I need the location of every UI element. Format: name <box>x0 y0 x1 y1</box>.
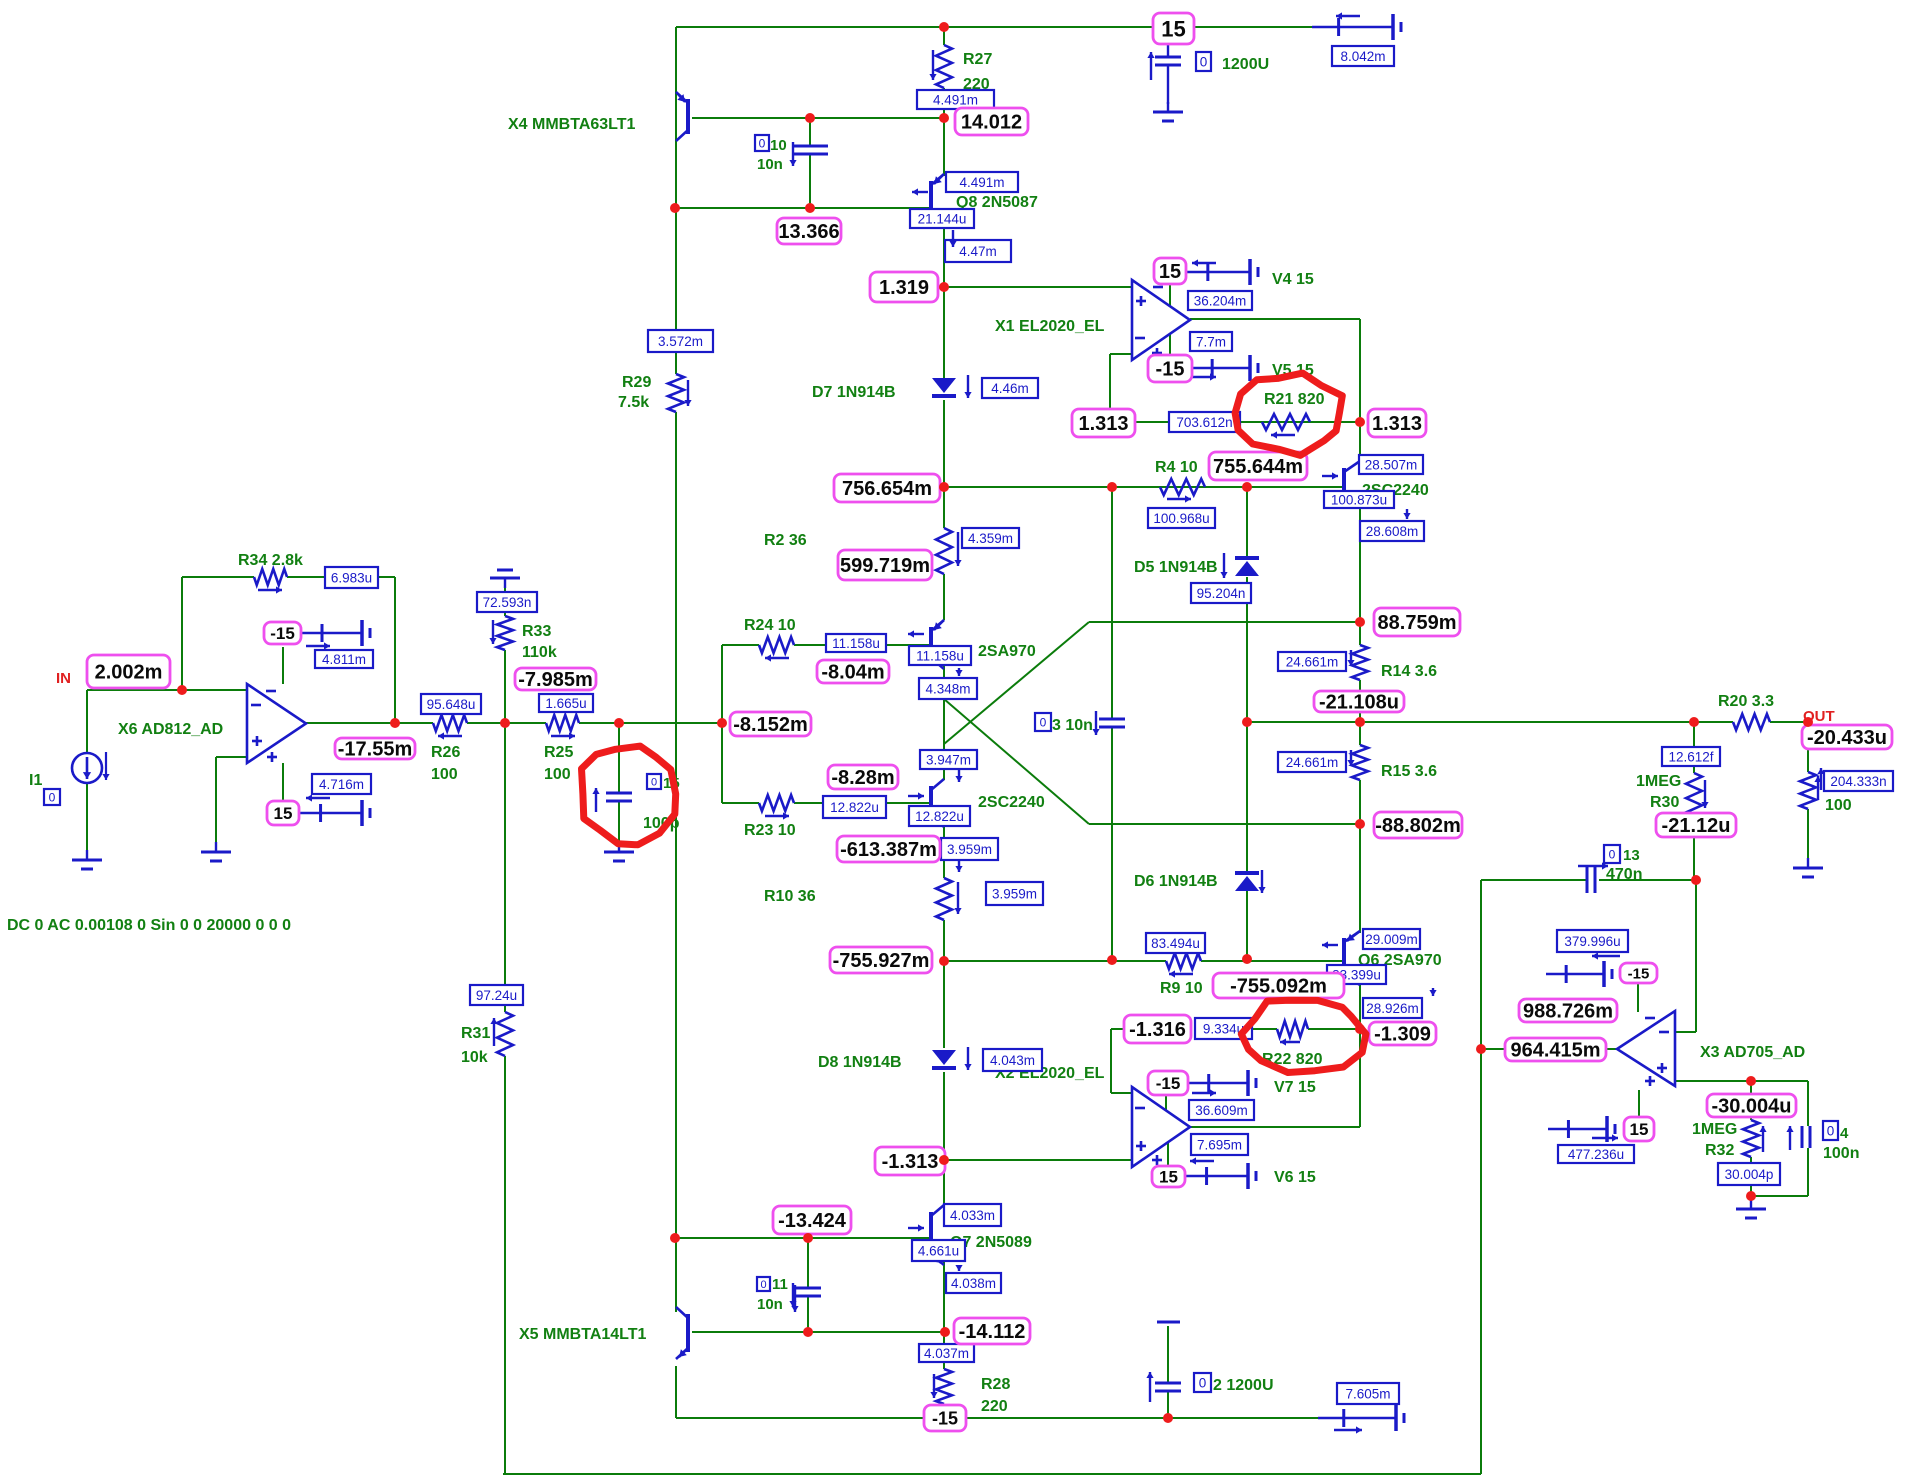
svg-text:-755.927m: -755.927m <box>833 950 930 972</box>
label R23 <box>744 822 796 839</box>
svg-text:470n: 470n <box>1606 866 1642 883</box>
svg-text:-755.092m: -755.092m <box>1230 976 1327 998</box>
resistor R22 <box>1277 1021 1308 1046</box>
svg-text:110k: 110k <box>522 644 557 661</box>
svg-text:3.959m: 3.959m <box>992 886 1037 901</box>
value box Q3 emitter current <box>1360 509 1424 541</box>
wire R33 ground stub <box>504 588 506 616</box>
battery X3 V+ supply <box>1548 1116 1618 1142</box>
label R31 <box>461 1025 490 1066</box>
ground X6 +input <box>201 842 231 861</box>
svg-text:15: 15 <box>1630 1120 1649 1139</box>
junction -21.108u x1247 <box>1242 717 1252 727</box>
wire X2 -input net vertical <box>1110 1029 1112 1093</box>
op-amp X6 <box>247 684 306 763</box>
resistor R20 <box>1733 714 1770 730</box>
value box R27 current <box>917 90 994 109</box>
ground R32/C4 <box>1736 1199 1766 1218</box>
wire C11 top lead <box>807 1238 809 1288</box>
svg-text:3.572m: 3.572m <box>658 334 703 349</box>
label D6 name <box>1134 873 1218 890</box>
capacitor C15 <box>592 788 632 812</box>
value box D5 current <box>1191 583 1251 603</box>
op-amp X1 <box>1132 280 1190 360</box>
label R25 <box>544 744 573 783</box>
svg-text:4.043m: 4.043m <box>990 1053 1035 1068</box>
node label X3 +15 <box>1624 1117 1654 1141</box>
value box R32 current <box>1718 1163 1780 1185</box>
wire X4 base <box>692 117 944 119</box>
svg-text:R27: R27 <box>963 51 992 68</box>
svg-text:R21 820: R21 820 <box>1264 391 1325 408</box>
label C10 value <box>757 137 797 173</box>
value box Q7 base current <box>912 1240 965 1261</box>
resistor R30 <box>1686 773 1709 816</box>
junction R21 / X1 out rail <box>1355 417 1365 427</box>
junction Q7 base left <box>670 1233 680 1243</box>
node label -21.12u <box>1656 813 1736 837</box>
svg-text:13.366: 13.366 <box>778 221 839 243</box>
svg-text:D5 1N914B: D5 1N914B <box>1134 559 1218 576</box>
svg-text:2SA970: 2SA970 <box>978 643 1036 660</box>
wire R26-R25 segment <box>467 722 546 724</box>
label X6 name <box>118 721 223 738</box>
svg-text:0: 0 <box>1609 847 1616 861</box>
label R34 <box>238 552 303 569</box>
svg-text:-14.112: -14.112 <box>959 1321 1026 1343</box>
wire X3 -input rail up to C13 node <box>1695 880 1697 1032</box>
label X5 name <box>519 1326 647 1343</box>
capacitor C7 <box>1147 41 1181 104</box>
node label -755.092m <box>1213 973 1344 998</box>
wire R10 to node -755.927m <box>943 920 945 961</box>
svg-text:-30.004u: -30.004u <box>1711 1096 1791 1118</box>
label C13 value <box>1604 845 1642 883</box>
junction node -21.108u <box>1355 717 1365 727</box>
svg-text:28.608m: 28.608m <box>1366 524 1419 539</box>
svg-text:7.7m: 7.7m <box>1196 334 1226 349</box>
resistor R34 <box>254 569 287 594</box>
value box Q5 base current <box>909 806 970 826</box>
wire outer loop bottom <box>503 1473 1481 1475</box>
svg-text:4.491m: 4.491m <box>959 175 1004 190</box>
capacitor C11 <box>791 1285 821 1312</box>
node label 964.415m <box>1505 1038 1606 1062</box>
value box R4 current <box>1148 508 1215 528</box>
svg-text:988.726m: 988.726m <box>1523 1001 1613 1023</box>
transistor Q6 <box>1322 931 1360 985</box>
battery V1 top right <box>1312 12 1401 40</box>
svg-text:X5 MMBTA14LT1: X5 MMBTA14LT1 <box>519 1326 647 1343</box>
svg-text:0: 0 <box>651 777 657 789</box>
node label X1 +15 <box>1154 258 1186 284</box>
svg-text:-20.433u: -20.433u <box>1807 727 1887 749</box>
svg-text:R15 3.6: R15 3.6 <box>1381 763 1437 780</box>
wire feedback up from IN node <box>181 577 183 690</box>
wire X3 output to rail <box>1481 1048 1617 1050</box>
wire C2 top lead <box>1167 1326 1169 1383</box>
junction R30 tap <box>1689 717 1699 727</box>
label R21 value <box>1264 391 1325 408</box>
highlight circle around R21 <box>1235 373 1342 455</box>
svg-text:V4 15: V4 15 <box>1272 271 1314 288</box>
wire R9 to Q6 base <box>1201 960 1344 962</box>
wire right rail Q3 to 88.759m <box>1359 497 1361 622</box>
capacitor C3 <box>1092 711 1125 735</box>
svg-text:756.654m: 756.654m <box>842 478 932 500</box>
svg-text:R28: R28 <box>981 1376 1010 1393</box>
value box R31 current <box>470 985 523 1005</box>
svg-text:29.009m: 29.009m <box>1365 932 1418 947</box>
svg-text:100: 100 <box>431 766 458 783</box>
resistor R21 <box>1262 414 1310 439</box>
svg-text:-8.28m: -8.28m <box>831 767 894 789</box>
svg-text:379.996u: 379.996u <box>1564 934 1620 949</box>
junction OUT node <box>1803 717 1813 727</box>
transistor X5 MMBTA14LT1 <box>676 1307 688 1359</box>
wire bottom -15 rail <box>676 1417 1318 1419</box>
wire Q4 collector to Q5 collector <box>943 665 945 780</box>
svg-text:15: 15 <box>274 804 293 823</box>
svg-text:964.415m: 964.415m <box>1510 1040 1600 1062</box>
label R24 <box>744 617 796 634</box>
label R14 <box>1381 663 1437 680</box>
svg-text:4.811m: 4.811m <box>322 652 366 667</box>
svg-text:R32: R32 <box>1705 1142 1734 1159</box>
node label 2.002m <box>87 655 170 688</box>
svg-text:97.24u: 97.24u <box>476 988 517 1003</box>
svg-text:1200U: 1200U <box>1222 56 1269 73</box>
wire X6 V- stub <box>282 647 284 684</box>
svg-text:12.822u: 12.822u <box>830 800 879 815</box>
value box Q3 base current <box>1324 491 1394 508</box>
node label 88.759m <box>1374 608 1460 636</box>
svg-text:R20 3.3: R20 3.3 <box>1718 693 1774 710</box>
svg-text:100n: 100n <box>1823 1145 1859 1162</box>
wire right rail Q6 to node -1.309 <box>1359 982 1361 1029</box>
wire R27 to Q8 <box>943 88 945 176</box>
label R28 <box>981 1376 1010 1415</box>
svg-text:IN: IN <box>56 670 71 687</box>
svg-text:-15: -15 <box>1156 1074 1181 1093</box>
value box C7 designator <box>1196 52 1211 71</box>
wire X3 output rail down <box>1480 880 1482 1474</box>
wire X3 +input horizontal <box>1675 1080 1808 1082</box>
label Q8 name <box>956 194 1038 211</box>
svg-text:4.037m: 4.037m <box>924 1346 969 1361</box>
wire right rail X1out to Q3 <box>1359 319 1361 463</box>
capacitor C4 <box>1786 1126 1810 1150</box>
label R9 <box>1160 980 1203 997</box>
svg-text:30.004p: 30.004p <box>1725 1167 1774 1182</box>
node label -17.55m <box>335 738 415 761</box>
value box Q8 emitter current <box>946 172 1018 192</box>
value box Q3 collector current <box>1359 455 1423 474</box>
svg-text:10: 10 <box>770 137 787 154</box>
wire R21 net horizontal <box>1110 421 1360 423</box>
wire node -14.112 to R28 <box>943 1332 945 1369</box>
svg-text:-13.424: -13.424 <box>778 1210 847 1232</box>
value box R24 current <box>826 634 886 652</box>
wire R28 bottom lead <box>943 1404 945 1418</box>
wire X5 base <box>692 1331 945 1333</box>
svg-text:15: 15 <box>1159 1168 1178 1187</box>
svg-text:13: 13 <box>1623 847 1640 864</box>
svg-text:21.144u: 21.144u <box>918 211 967 226</box>
label Q3 name <box>1362 482 1429 499</box>
value box R14 current <box>1278 652 1346 671</box>
svg-text:2.002m: 2.002m <box>95 662 163 684</box>
junction X4 base / C10 <box>805 113 815 123</box>
junction R25 / C15 <box>614 718 624 728</box>
node label -8.152m <box>730 712 811 736</box>
resistor R4 <box>1160 479 1205 503</box>
resistor R2 <box>936 528 962 574</box>
wire C4 bottom lead <box>1807 1148 1809 1196</box>
wire X1 output horizontal <box>1190 318 1360 320</box>
label Q4 name <box>978 643 1036 660</box>
svg-text:-15: -15 <box>270 624 295 643</box>
value box R25 current <box>539 694 593 712</box>
diode D6 <box>1235 870 1266 893</box>
svg-text:1.319: 1.319 <box>879 277 929 299</box>
value box C3 designator <box>1035 713 1051 731</box>
resistor R14 <box>1347 645 1368 680</box>
wire R32 ground stub <box>1750 1196 1752 1207</box>
svg-text:100.968u: 100.968u <box>1153 511 1209 526</box>
value box X1 V+ current <box>1188 291 1252 310</box>
capacitor C10 <box>792 146 828 154</box>
value box R21 current <box>1169 412 1240 432</box>
svg-text:14.012: 14.012 <box>961 112 1022 134</box>
label R33 <box>522 623 557 661</box>
node label X6 -15 <box>264 622 301 644</box>
label D5 name <box>1134 559 1218 576</box>
node label 13.366 <box>777 218 841 244</box>
svg-text:10k: 10k <box>461 1049 488 1066</box>
svg-text:100: 100 <box>1825 797 1852 814</box>
svg-text:-21.12u: -21.12u <box>1662 815 1731 837</box>
svg-text:4.038m: 4.038m <box>951 1276 996 1291</box>
node label 1.313 left <box>1072 409 1135 437</box>
svg-text:204.333n: 204.333n <box>1830 774 1886 789</box>
wire R30 bottom lead to node <box>1693 816 1695 880</box>
wire C15 top lead <box>618 723 620 793</box>
value box X3 V+ current <box>1558 1145 1634 1163</box>
wire R32 top lead <box>1750 1081 1752 1120</box>
label R26 <box>431 744 460 783</box>
svg-text:11.158u: 11.158u <box>832 636 880 651</box>
value box C10 designator <box>755 135 769 151</box>
wire R27 top lead <box>943 27 945 45</box>
value box Q5 emitter current <box>941 838 998 872</box>
label R10 <box>764 888 816 905</box>
wire D7 to node 756.654m <box>943 400 945 487</box>
wire right rail -88.802m to Q6 <box>1359 824 1361 933</box>
value box V2 current <box>1337 1383 1399 1404</box>
wire R34 right segment <box>287 576 395 578</box>
wire 9.334u to R22 <box>1252 1028 1277 1030</box>
wire node1.319 to D7 <box>943 287 945 378</box>
svg-text:4.491m: 4.491m <box>933 92 978 107</box>
battery V6 <box>1185 1157 1256 1189</box>
svg-text:0: 0 <box>1827 1123 1835 1138</box>
svg-text:R2 36: R2 36 <box>764 532 807 549</box>
label R29 <box>618 374 651 411</box>
resistor R31 <box>490 1012 513 1056</box>
junction 756 rail x1247 <box>1242 482 1252 492</box>
svg-text:R31: R31 <box>461 1025 490 1042</box>
svg-text:R33: R33 <box>522 623 551 640</box>
wire R22 to node -1.309 <box>1308 1028 1360 1030</box>
svg-text:100.873u: 100.873u <box>1331 492 1387 507</box>
ground I1 <box>72 850 102 869</box>
wire -1.316 box link <box>1111 1028 1126 1030</box>
node label -14.112 <box>954 1318 1030 1344</box>
svg-text:15: 15 <box>1161 16 1185 41</box>
junction node -30.004u <box>1746 1076 1756 1086</box>
wire R23 to Q5 base <box>794 802 931 804</box>
label V7 name <box>1274 1079 1316 1096</box>
junction node -755.927m <box>939 956 949 966</box>
label R20 <box>1718 693 1774 710</box>
wire X6 +input stub <box>216 756 247 758</box>
value box X6 V+ current <box>312 774 371 794</box>
value box D8 current <box>983 1049 1042 1071</box>
wire X3 V- stub <box>1637 984 1639 1012</box>
node label -755.927m <box>830 947 932 973</box>
node label -30.004u <box>1707 1094 1796 1118</box>
label R15 <box>1381 763 1437 780</box>
svg-text:-21.108u: -21.108u <box>1319 692 1399 714</box>
junction 13.366 / C10 <box>805 203 815 213</box>
svg-text:703.612n: 703.612n <box>1176 415 1232 430</box>
wire right rail R15 top lead <box>1359 722 1361 745</box>
wire C13 left segment <box>1481 879 1587 881</box>
junction R26/R25/R33 <box>500 718 510 728</box>
junction C13 / R30 / X3 -in <box>1691 875 1701 885</box>
svg-text:-15: -15 <box>932 1409 958 1429</box>
svg-text:0: 0 <box>759 136 766 150</box>
svg-text:D8 1N914B: D8 1N914B <box>818 1054 902 1071</box>
svg-text:-1.316: -1.316 <box>1129 1019 1186 1041</box>
wire 88.759m horizontal <box>1089 621 1360 623</box>
wire R20 to OUT <box>1770 721 1808 723</box>
diode D8 <box>932 1047 972 1070</box>
wire D8 bottom lead to node -1.313 <box>943 1072 945 1160</box>
node label -21.108u <box>1314 691 1404 714</box>
wire OUT load resistor bottom lead <box>1807 809 1809 866</box>
value box Q6 collector current <box>1363 988 1437 1018</box>
svg-text:-17.55m: -17.55m <box>338 739 413 761</box>
svg-text:X3 AD705_AD: X3 AD705_AD <box>1700 1044 1805 1061</box>
value box R34 current <box>325 567 378 588</box>
wire right rail R14 top lead <box>1359 622 1361 645</box>
transistor Q4 <box>908 620 944 669</box>
svg-text:3.959m: 3.959m <box>947 842 992 857</box>
svg-text:D7 1N914B: D7 1N914B <box>812 384 896 401</box>
wire R24 to Q4 base <box>794 644 931 646</box>
resistor R29 <box>668 374 692 412</box>
svg-text:4.47m: 4.47m <box>959 244 997 259</box>
value box Q6 base current <box>1327 965 1386 984</box>
junction node 756.654m <box>939 482 949 492</box>
svg-text:477.236u: 477.236u <box>1568 1147 1624 1162</box>
op-amp X2 <box>1132 1087 1190 1167</box>
wire X3 -input stub <box>1675 1031 1696 1033</box>
wire X6 V+ stub <box>282 763 284 800</box>
wire R30 top lead <box>1693 722 1695 773</box>
node label X6 +15 <box>267 801 299 825</box>
svg-text:36.204m: 36.204m <box>1194 293 1247 308</box>
wire C4 bottom to ground node <box>1751 1195 1808 1197</box>
svg-text:0: 0 <box>1040 715 1047 729</box>
junction X6 out / R34 <box>390 718 400 728</box>
svg-text:1.665u: 1.665u <box>545 696 586 711</box>
wire -88.802m horizontal <box>1089 823 1360 825</box>
resistor R24 <box>759 637 794 662</box>
node label 15 top rail <box>1153 13 1194 44</box>
wire outer loop left vertical upper <box>504 650 506 1012</box>
label Q7 name <box>950 1234 1032 1251</box>
junction node 88.759m <box>1355 617 1365 627</box>
svg-text:R30: R30 <box>1650 794 1679 811</box>
svg-text:R10 36: R10 36 <box>764 888 816 905</box>
svg-text:0: 0 <box>49 790 56 804</box>
node label -88.802m <box>1374 812 1462 838</box>
wire diagonal Q5 to -88.802m line <box>944 699 1089 824</box>
wire X2 V+ stub <box>1167 1142 1169 1166</box>
battery V2 bottom <box>1318 1405 1404 1434</box>
svg-text:0: 0 <box>1200 54 1208 69</box>
svg-text:24.661m: 24.661m <box>1286 755 1339 770</box>
resistor R23 <box>759 795 794 820</box>
node label X3 -15 <box>1620 963 1657 983</box>
wire mid rail x1247 middle (D5 to D6) <box>1246 577 1248 871</box>
svg-text:755.644m: 755.644m <box>1213 456 1303 478</box>
svg-text:1.313: 1.313 <box>1372 413 1422 435</box>
capacitor C13 <box>1578 862 1608 893</box>
node label -15 bottom rail <box>924 1405 966 1431</box>
label Q5 name <box>978 794 1045 811</box>
value box C11 designator <box>757 1277 770 1291</box>
wire OUT load resistor top lead <box>1807 722 1809 772</box>
label X3 name <box>1700 1044 1805 1061</box>
node label 599.719m <box>838 550 932 580</box>
svg-text:28.926m: 28.926m <box>1366 1001 1419 1016</box>
node label -1.316 <box>1124 1015 1191 1043</box>
wire mid rail x1112 lower (C3 to -755.927m) <box>1111 727 1113 960</box>
wire node -1.309 to X2 output corner <box>1359 1029 1361 1127</box>
resistor R25 <box>546 715 579 740</box>
svg-text:36.609m: 36.609m <box>1195 1103 1248 1118</box>
label D8 name <box>818 1054 902 1071</box>
capacitor C2 <box>1146 1322 1181 1402</box>
battery X6 V+ supply <box>299 794 370 826</box>
value box X2 V- current <box>1189 1100 1254 1120</box>
wire node -1.313 to X2 +input <box>944 1159 1132 1161</box>
value box R28 current <box>919 1344 974 1362</box>
wire diagonal Q4 to 88.759m line <box>944 622 1089 744</box>
value box X1 output current <box>1190 332 1232 351</box>
value box I1 designator <box>44 789 60 805</box>
resistor R19 output load <box>1800 772 1822 809</box>
junction R32 ground node <box>1746 1191 1756 1201</box>
junction -755 rail x1247 <box>1242 954 1252 964</box>
wire Q7 base <box>675 1237 931 1239</box>
wire right rail R15 bottom lead <box>1359 780 1361 824</box>
svg-text:4.661u: 4.661u <box>918 1243 959 1258</box>
